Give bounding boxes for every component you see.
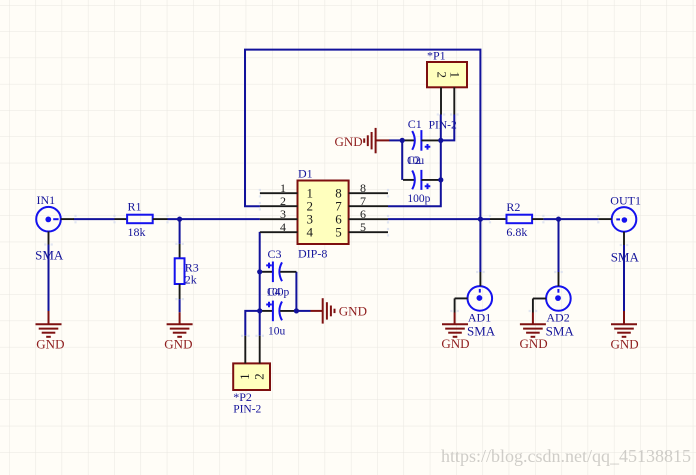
svg-text:5: 5 xyxy=(360,220,366,234)
junction node C1 left xyxy=(400,138,405,143)
svg-text:10u: 10u xyxy=(268,326,286,338)
svg-text:https://blog.csdn.net/qq_45138: https://blog.csdn.net/qq_45138815 xyxy=(441,446,691,466)
svg-text:AD1: AD1 xyxy=(468,310,491,324)
wire: feedback loop rectangle from pin2 up over top to output node xyxy=(245,50,480,220)
power port GND near C1 xyxy=(335,128,390,153)
pin 7 of D1 xyxy=(349,205,388,207)
wire: R3 GND red stub xyxy=(179,312,181,324)
svg-text:18k: 18k xyxy=(128,225,146,239)
connector P2 xyxy=(233,336,270,390)
svg-text:6.8k: 6.8k xyxy=(506,225,527,239)
ground symbol under OUT1 xyxy=(611,324,637,337)
svg-text:100p: 100p xyxy=(407,193,430,205)
wire: DIP pin4 down to C3/C4 column xyxy=(259,232,261,336)
svg-text:R1: R1 xyxy=(128,200,142,214)
svg-text:GND: GND xyxy=(611,337,639,352)
wire: OUT1 GND red stub xyxy=(623,311,625,324)
svg-text:*P1: *P1 xyxy=(427,49,446,63)
junction node R1/R3 xyxy=(177,217,182,222)
wire: C4 row left to P2 pin1 xyxy=(245,311,259,336)
wire: main horizontal net IN1 to R1 xyxy=(74,218,115,220)
wire: DIP pin6 to R2 xyxy=(388,218,490,220)
capacitor C1 xyxy=(403,130,441,151)
pin number labels outside left xyxy=(280,181,286,234)
wire: C3 right down to C4 right xyxy=(295,272,297,311)
wire: AD1 to GND (red) xyxy=(454,313,456,325)
pin 8 of D1 xyxy=(349,192,388,194)
wire: DIP pin7 to C2/C1 column xyxy=(388,115,441,207)
svg-text:D1: D1 xyxy=(298,167,313,181)
svg-text:5: 5 xyxy=(335,224,342,239)
svg-text:1: 1 xyxy=(237,373,252,380)
wire: R1 to DIP pin3 xyxy=(168,218,260,220)
svg-text:4: 4 xyxy=(280,220,286,234)
pin 6 of D1 xyxy=(349,218,388,220)
capacitor C2 xyxy=(403,170,441,190)
pin 4 of D1 xyxy=(260,231,298,233)
wire: GND port to C1 left node xyxy=(389,139,402,141)
junction node output/AD1 xyxy=(478,217,483,222)
wire: AD2 to GND (red) xyxy=(532,313,534,325)
svg-text:2: 2 xyxy=(280,194,286,208)
ground symbol under AD2 xyxy=(520,324,546,337)
svg-text:AD2: AD2 xyxy=(546,310,569,324)
hotspot markers at wire ends xyxy=(44,113,628,337)
pin 3 of D1 xyxy=(260,218,298,220)
resistor R3 xyxy=(175,244,185,299)
ground symbol under R3 xyxy=(167,324,193,337)
svg-text:SMA: SMA xyxy=(546,323,575,338)
svg-text:6: 6 xyxy=(360,207,366,221)
wire: IN1 GND red stub xyxy=(48,311,50,324)
wire: R3 to GND xyxy=(179,299,181,312)
wire: output node down to AD1 xyxy=(479,219,481,272)
svg-text:C2: C2 xyxy=(407,155,421,167)
svg-text:3: 3 xyxy=(280,207,286,221)
svg-text:GND: GND xyxy=(441,336,469,351)
svg-text:GND: GND xyxy=(335,134,363,149)
wire: P1 pin1 down to C1 node xyxy=(441,115,455,141)
svg-text:GND: GND xyxy=(36,337,64,352)
pin 1 of D1 xyxy=(260,192,298,194)
connector AD1 (SMA) xyxy=(455,272,493,313)
wire: C4 node to GND port xyxy=(296,310,310,312)
svg-text:C1: C1 xyxy=(408,117,422,131)
svg-text:R2: R2 xyxy=(506,200,520,214)
junction node C4 right xyxy=(294,308,299,313)
junction node C3 left xyxy=(257,269,262,274)
resistor R2 xyxy=(490,215,543,224)
wire: output node down to AD2 xyxy=(558,219,560,272)
svg-text:OUT1: OUT1 xyxy=(610,194,641,208)
svg-text:7: 7 xyxy=(360,194,366,208)
resistor R1 xyxy=(115,215,168,224)
svg-text:*P2: *P2 xyxy=(233,390,252,404)
svg-text:4: 4 xyxy=(307,224,314,239)
junction node R2/AD2 xyxy=(556,217,561,222)
pin numbers inside left xyxy=(307,185,314,239)
svg-text:8: 8 xyxy=(360,181,366,195)
pin 2 of D1 xyxy=(260,205,298,207)
svg-text:GND: GND xyxy=(164,337,192,352)
connector OUT1 (SMA) xyxy=(598,207,636,245)
pin 5 of D1 xyxy=(349,231,388,233)
svg-text:SMA: SMA xyxy=(467,323,496,338)
wire: R2 to OUT1 xyxy=(543,218,598,220)
IC D1 DIP-8 xyxy=(298,181,349,245)
svg-text:GND: GND xyxy=(520,336,548,351)
connector IN1 (SMA) xyxy=(36,207,74,245)
svg-text:DIP-8: DIP-8 xyxy=(298,246,327,260)
junction node C1 right xyxy=(438,138,443,143)
svg-text:2k: 2k xyxy=(185,272,197,286)
svg-text:PIN-2: PIN-2 xyxy=(429,119,457,131)
svg-text:1: 1 xyxy=(280,181,286,195)
pin numbers inside right xyxy=(335,185,342,239)
junction node C2 right xyxy=(438,177,443,182)
svg-text:C4: C4 xyxy=(267,287,281,299)
connector P1 xyxy=(427,62,467,115)
svg-text:SMA: SMA xyxy=(611,249,640,264)
wire: OUT1 to GND xyxy=(623,245,625,311)
svg-text:GND: GND xyxy=(339,304,367,319)
svg-text:PIN-2: PIN-2 xyxy=(233,403,261,415)
svg-text:IN1: IN1 xyxy=(37,193,56,207)
ground symbol under IN1 xyxy=(36,324,62,337)
connector AD2 (SMA) xyxy=(533,272,571,313)
capacitor C3 xyxy=(260,262,296,283)
junction node C4 left xyxy=(257,308,262,313)
svg-text:C3: C3 xyxy=(268,247,282,261)
wire: IN1 to GND xyxy=(48,245,50,312)
pin number labels outside right xyxy=(360,181,366,234)
svg-text:SMA: SMA xyxy=(35,247,64,262)
wire: C1 left node down to C2 left xyxy=(401,140,403,180)
power port GND near C4 xyxy=(311,298,367,323)
capacitor C4 xyxy=(260,301,296,322)
svg-text:1: 1 xyxy=(448,71,463,78)
svg-text:2: 2 xyxy=(434,71,449,78)
ground symbol under AD1 xyxy=(442,324,468,337)
svg-text:2: 2 xyxy=(251,373,266,380)
wire: node to R3 xyxy=(179,219,181,244)
